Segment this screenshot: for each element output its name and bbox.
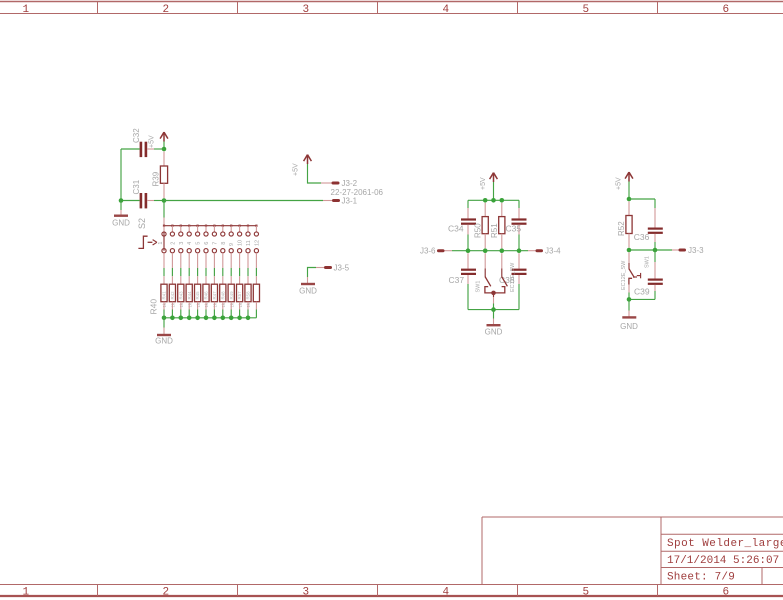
svg-text:GND: GND [299,286,317,295]
svg-text:R42: R42 [170,291,175,300]
pin J3-2 [333,182,338,185]
resistor R57 [237,284,243,307]
svg-text:R57: R57 [237,291,242,300]
node right bottom junction [627,297,632,302]
svg-text:EC12E_SW: EC12E_SW [510,262,516,292]
wire S2 pin 10 to resistor [239,253,241,284]
wire J3-4 lead [528,250,537,252]
wire resistor R47 to ground bus [213,302,215,318]
wire C31 left [121,200,140,202]
resistor R47 [211,284,217,307]
capacitor C39 [648,250,663,299]
wire S2 pin 7 to resistor [213,253,215,284]
svg-text:3: 3 [302,586,309,598]
wire down to S2 [163,201,165,226]
wire S2 pin 3 to resistor [180,253,182,284]
node junction gnd bus col 4 [187,316,192,321]
wire J3-6 lead [444,250,453,252]
svg-text:10: 10 [238,240,244,246]
pin J3-3 [680,249,685,252]
svg-text:GND: GND [112,219,130,228]
node junction gnd bus col 7 [212,316,217,321]
ground GND (right) [620,299,638,331]
svg-text:C31: C31 [132,179,141,194]
svg-text:1k: 1k [213,302,218,307]
wire resistor R45 to ground bus [197,302,199,318]
svg-text:+5V: +5V [149,135,156,148]
node junction gnd bus col 3 [179,316,184,321]
node junction gnd bus col 6 [204,316,209,321]
svg-text:R43: R43 [178,291,183,300]
capacitor C35 [512,200,527,250]
svg-text:1: 1 [158,242,164,245]
svg-text:1k: 1k [187,302,192,307]
svg-text:SW1: SW1 [645,256,651,268]
svg-text:R41: R41 [162,291,167,300]
power +5V arrow (right) [625,172,633,182]
svg-text:6: 6 [204,242,210,245]
svg-text:1k: 1k [246,302,251,307]
svg-text:S2: S2 [137,218,147,229]
resistor R45 [195,284,201,307]
wire J3-1 pin lead [323,200,332,202]
wire C32 right to junction [154,148,164,150]
svg-text:R45: R45 [195,291,200,300]
svg-text:+5V: +5V [615,177,622,190]
switch S2 top bus [164,225,256,227]
title block outline [482,517,783,585]
capacitor C36 [648,199,663,250]
wire middle mid bus [452,250,528,252]
S2 actuator symbol [138,236,164,248]
svg-text:C35: C35 [506,223,522,233]
svg-text:GND: GND [620,322,638,331]
S2 pins bottom row circles [162,249,259,253]
svg-text:3: 3 [179,242,185,245]
wire resistor R58 to ground bus [247,302,249,318]
svg-text:1k: 1k [162,302,167,307]
resistor R52 [626,202,632,248]
wire C31 right [154,200,164,202]
svg-text:R47: R47 [212,291,217,300]
power +5V arrow (at J3-2) [304,155,312,165]
wire S2 pin 8 to resistor [222,253,224,284]
svg-text:4: 4 [442,586,449,598]
svg-text:R44: R44 [187,291,192,300]
svg-text:1: 1 [22,4,29,16]
wire S2 pin 5 to resistor [197,253,199,284]
wire resistor R49 to ground bus [230,302,232,318]
node junction gnd bus col 5 [195,316,200,321]
node bottom bus junction [491,307,496,312]
svg-text:J3-6: J3-6 [420,247,436,256]
wire C32 left [121,148,140,150]
wire resistor R44 to ground bus [188,302,190,318]
wire +5V stem middle [493,182,495,200]
wire resistor R48 to ground bus [222,302,224,318]
wire S2 pin 2 to resistor [171,253,173,284]
node junction gnd bus col 11 [246,316,251,321]
svg-text:1k: 1k [229,302,234,307]
svg-text:J3-2: J3-2 [342,179,358,188]
wire +5V to J3-2 [308,164,322,183]
svg-text:3: 3 [302,4,309,16]
wire S2 pin 12 to resistor [255,253,257,284]
node junction at C32/R39/+5V [162,147,167,152]
svg-text:11: 11 [246,240,252,246]
pin J3-5 [326,266,331,269]
wire resistor R43 to ground bus [180,302,182,318]
svg-text:J3-1: J3-1 [342,196,358,205]
svg-text:J3-4: J3-4 [545,247,561,256]
svg-text:5: 5 [196,242,202,245]
S2 pins top row circles [162,232,259,236]
capacitor C34 [461,200,476,250]
svg-text:1k: 1k [196,302,201,307]
pin J3-1 [334,199,339,202]
svg-text:17/1/2014 5:26:07 PM: 17/1/2014 5:26:07 PM [667,555,783,567]
svg-text:SW1: SW1 [475,281,481,293]
wire +5V stem to junction [163,142,165,150]
svg-text:R48: R48 [220,291,225,300]
node top bus junctions [483,198,488,203]
svg-text:Sheet: 7/9: Sheet: 7/9 [667,571,735,583]
resistor R44 [186,284,192,307]
capacitor C38 [512,253,527,309]
wire resistor R46 to ground bus [205,302,207,318]
svg-text:C34: C34 [448,223,464,233]
svg-text:Spot Welder_large: Spot Welder_large [667,538,783,550]
wire long net to J3-1 [164,200,323,202]
frame bottom band [0,585,783,599]
resistor R49 [228,284,234,307]
wire resistor R41 to ground bus [163,302,165,318]
resistor R41 [161,284,167,307]
svg-text:1k: 1k [204,302,209,307]
ground GND (J3-5) [299,284,317,295]
ground GND (below resistor bank) [155,318,173,346]
svg-text:R49: R49 [229,291,234,300]
wire S2 pin 4 to resistor [188,253,190,284]
svg-text:2: 2 [170,242,176,245]
wire S2 pin 1 to resistor [163,253,165,284]
svg-text:R51: R51 [490,223,499,238]
wire right mid bus to J3-3 [629,249,672,251]
wire middle top bus [468,199,519,201]
svg-text:EC12E_SW: EC12E_SW [621,260,627,290]
svg-text:1k: 1k [171,302,176,307]
svg-text:4: 4 [187,242,193,245]
svg-text:7: 7 [212,242,218,245]
svg-text:8: 8 [221,242,227,245]
power +5V arrow (left, at R39 top) [160,132,168,142]
svg-text:R39: R39 [152,171,161,186]
svg-text:4: 4 [442,4,449,16]
svg-text:5: 5 [582,586,589,598]
S2 bus-to-pin stubs [164,226,256,232]
svg-text:+5V: +5V [292,163,299,176]
node right top junction [627,197,632,202]
svg-text:C37: C37 [449,275,465,285]
wire resistor R42 to ground bus [171,302,173,318]
ground GND (middle) [485,310,503,337]
svg-text:1: 1 [22,586,29,598]
node junction at R39 bottom [162,198,167,203]
wire middle bottom bus [468,309,519,311]
svg-text:12: 12 [254,240,260,246]
capacitor C37 [461,253,476,309]
power +5V arrow (middle) [490,173,498,183]
svg-text:R46: R46 [204,291,209,300]
wire right top bus [629,198,655,200]
svg-text:J3-3: J3-3 [688,246,704,255]
node mid bus junctions [466,248,471,253]
S2 pole through-line column 1 [163,232,165,251]
wire S2 pin 11 to resistor [247,253,249,284]
resistor R50 [482,203,488,248]
svg-text:R50: R50 [473,223,482,238]
capacitor C31 [140,193,154,208]
svg-text:R58: R58 [246,291,251,300]
svg-text:1k: 1k [238,302,243,307]
wire S2 pin 6 to resistor [205,253,207,284]
resistor R42 [169,284,175,307]
wire resistor R57 to ground bus [239,302,241,318]
wire +5V stem right [628,182,630,200]
node junction gnd bus col 1 [162,316,167,321]
svg-text:2: 2 [162,586,169,598]
pin J3-6 [439,249,444,252]
svg-text:GND: GND [485,328,503,337]
resistor R51 [499,203,505,248]
svg-text:1k: 1k [221,302,226,307]
wire left vertical [120,149,122,201]
svg-text:C39: C39 [634,287,650,297]
svg-text:+5V: +5V [480,177,487,190]
node right mid junctions [627,248,632,253]
node junction gnd bus col 9 [229,316,234,321]
pin J3-4 [537,249,542,252]
svg-text:5: 5 [582,4,589,16]
switch SW1 (middle, dual contacts) [485,253,508,309]
wire resistor R52 to ground bus [255,302,257,318]
resistor R43 [178,284,184,307]
svg-text:2: 2 [162,4,169,16]
svg-text:GND: GND [155,337,173,346]
node junction left [119,198,124,203]
wire S2 pin 9 to resistor [230,253,232,284]
svg-text:6: 6 [722,4,729,16]
node junction gnd bus col 8 [221,316,226,321]
resistor R48 [220,284,226,307]
wire right bottom bus [629,298,655,300]
S2 bus pin squares [163,225,258,227]
resistor R58 [245,284,251,307]
svg-text:R52: R52 [617,221,626,236]
frame top band [0,2,783,17]
svg-text:6: 6 [722,586,729,598]
svg-text:J3-5: J3-5 [334,263,350,272]
resistor R46 [203,284,209,307]
switch SW1 (right) [629,253,641,300]
svg-text:R40: R40 [148,299,158,315]
svg-text:9: 9 [229,243,235,246]
svg-text:C32: C32 [132,128,141,143]
wire J3-5 to GND [308,268,326,284]
svg-text:C36: C36 [634,232,650,242]
resistor R39 [160,152,167,199]
svg-text:1k: 1k [179,302,184,307]
wire ground bus under resistors [164,317,256,319]
capacitor C32 [140,142,154,157]
resistor R52 [253,284,259,302]
S2 pin numbers [170,240,260,246]
ground GND (left of C31) [112,201,130,228]
node junction gnd bus col 10 [237,316,242,321]
node junction gnd bus col 2 [170,316,175,321]
